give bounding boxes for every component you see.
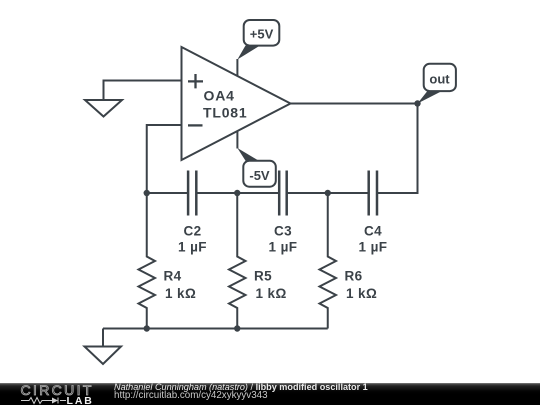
- wire C4 left to node: [328, 192, 369, 194]
- wire C3 left to node: [237, 192, 279, 194]
- -5V supply callout: [237, 148, 275, 187]
- svg-text:C2: C2: [183, 224, 201, 239]
- capacitor C3 1uF: [269, 171, 298, 255]
- svg-text:1 kΩ: 1 kΩ: [346, 286, 377, 301]
- svg-text:1 µF: 1 µF: [178, 239, 207, 254]
- wire node to C2 right plate: [196, 192, 237, 194]
- svg-text:C3: C3: [274, 224, 292, 239]
- svg-text:1 kΩ: 1 kΩ: [256, 286, 287, 301]
- svg-text:out: out: [429, 72, 450, 87]
- wire +5V power pin: [236, 59, 238, 76]
- svg-text:C4: C4: [364, 224, 382, 239]
- svg-text:R5: R5: [254, 269, 272, 284]
- capacitor C2 1uF: [178, 171, 207, 255]
- wire from ground to op-amp + input: [104, 81, 182, 101]
- out node callout: [418, 64, 456, 104]
- svg-text:-5V: -5V: [249, 168, 270, 183]
- wire from out node down to C4: [377, 104, 418, 194]
- node (feedback / C2 / R4): [144, 190, 150, 196]
- ground (bottom rail): [85, 347, 122, 365]
- svg-text:OA4: OA4: [204, 88, 235, 104]
- bottom rail wire: [103, 328, 328, 330]
- node (R4 / bottom rail): [144, 325, 150, 331]
- svg-text:TL081: TL081: [203, 104, 247, 120]
- resistor R5 1kOhm: [229, 193, 287, 329]
- capacitor C4 1uF: [359, 171, 388, 255]
- resistor R6 1kOhm: [320, 193, 378, 329]
- svg-text:1 µF: 1 µF: [359, 239, 388, 254]
- ground (non-inverting input): [85, 100, 122, 117]
- inverting input - mark: [188, 124, 203, 126]
- node (R5 / bottom rail): [234, 325, 240, 331]
- non-inverting input + mark: [188, 74, 203, 88]
- op-amp U OA4 TL081: [182, 47, 291, 160]
- footer bar: [0, 383, 540, 405]
- wire from feedback node to op-amp - input: [147, 125, 182, 193]
- wire node to C3 right plate: [287, 192, 328, 194]
- footer text: [114, 382, 368, 392]
- svg-text:LAB: LAB: [67, 395, 94, 405]
- node out (junction dot): [414, 100, 420, 106]
- wire -5V power pin: [236, 131, 238, 149]
- svg-text:1 µF: 1 µF: [269, 239, 298, 254]
- CircuitLab logo: [20, 384, 120, 405]
- svg-text:1 kΩ: 1 kΩ: [165, 286, 196, 301]
- svg-text:R4: R4: [164, 269, 182, 284]
- wire bottom rail to ground: [102, 329, 104, 347]
- svg-text:R6: R6: [345, 269, 363, 284]
- resistor R4 1kOhm: [139, 193, 197, 329]
- wire op-amp output: [291, 103, 418, 105]
- +5V supply callout: [237, 20, 279, 60]
- svg-text:+5V: +5V: [250, 27, 274, 42]
- node (C2/C3/R5): [234, 190, 240, 196]
- wire C2 left to feedback node: [147, 192, 188, 194]
- node (C3/C4/R6): [325, 190, 331, 196]
